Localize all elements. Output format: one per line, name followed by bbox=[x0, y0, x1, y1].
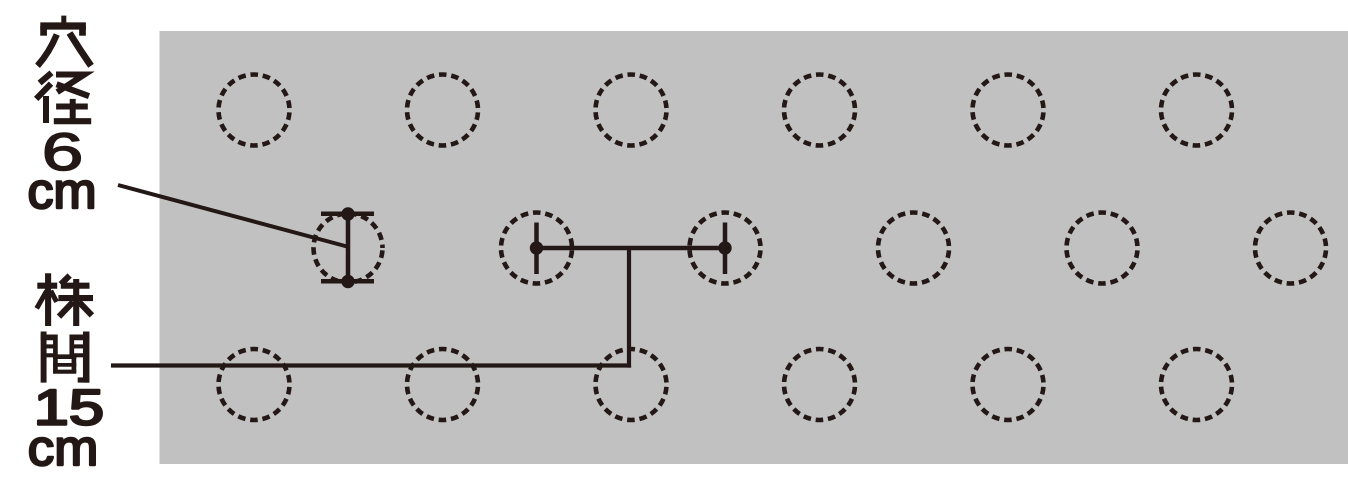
mulch sheet (gray bed) bbox=[160, 31, 1348, 464]
plant spacing measure: horizontal line between hole centers bbox=[537, 246, 726, 251]
hole row2 c4 bbox=[878, 213, 949, 284]
plant spacing measure: right dot bbox=[718, 241, 731, 254]
hole row1 c4 bbox=[784, 75, 855, 146]
hole row3 c2 bbox=[407, 349, 478, 420]
hole row2 c3 bbox=[690, 213, 761, 284]
plant spacing measure: right tick bbox=[723, 223, 728, 275]
kanji 穴 (hole) bbox=[38, 16, 92, 66]
hole row2 c6 bbox=[1255, 213, 1326, 284]
hole row3 c4 bbox=[784, 349, 855, 420]
junction overhang bbox=[627, 366, 631, 368]
hole row1 c3 bbox=[596, 75, 667, 146]
hole diameter measure: bottom cap bbox=[321, 279, 374, 284]
plant spacing measure: left tick bbox=[534, 223, 539, 275]
kanji 株 (plant) bbox=[37, 273, 93, 326]
hole row1 c5 bbox=[973, 75, 1044, 146]
leader line from hole-diameter label to measured hole bbox=[118, 185, 347, 247]
hole row1 c6 bbox=[1161, 75, 1232, 146]
kanji 径 (diameter) bbox=[36, 73, 91, 123]
hole diameter measure: vertical line bbox=[346, 214, 351, 282]
leader polyline from spacing label to spacing measure bbox=[111, 248, 629, 366]
svg-text:cm: cm bbox=[28, 419, 98, 476]
hole diameter measure: top dot bbox=[341, 207, 354, 220]
hole row3 c6 bbox=[1161, 349, 1232, 420]
kanji 間 (spacing) bbox=[41, 332, 90, 383]
hole diameter measure: bottom dot bbox=[341, 275, 354, 288]
hole row2 c2 bbox=[501, 213, 572, 284]
hole row2 c1 (diameter-measured hole) bbox=[314, 214, 383, 283]
hole diameter measure: top cap bbox=[321, 212, 374, 217]
svg-text:cm: cm bbox=[28, 162, 97, 219]
plant spacing measure: left dot bbox=[530, 241, 543, 254]
hole row3 c3 bbox=[596, 349, 667, 420]
hole row1 c2 bbox=[407, 75, 478, 146]
hole row3 c1 bbox=[219, 349, 290, 420]
hole row1 c1 bbox=[219, 75, 290, 146]
planting hole circles (dashed), row 1 bbox=[219, 75, 1327, 421]
hole row3 c5 bbox=[973, 349, 1044, 420]
hole row2 c5 bbox=[1067, 213, 1138, 284]
